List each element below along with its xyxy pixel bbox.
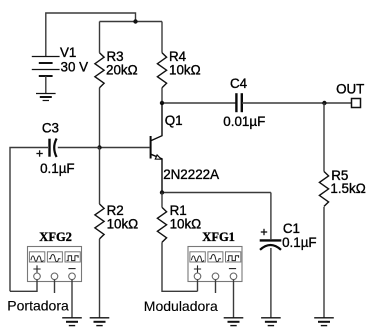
node collector [160, 101, 164, 105]
wire R4 top stub [161, 22, 163, 53]
svg-text:0.1µF: 0.1µF [40, 161, 75, 176]
wire C1 bottom to ground [270, 248, 272, 318]
svg-text:Moduladora: Moduladora [144, 298, 218, 314]
wire R4 bottom to collector node [161, 88, 163, 103]
svg-text:20kΩ: 20kΩ [106, 62, 138, 77]
svg-text:C1: C1 [283, 221, 300, 236]
svg-text:C3: C3 [42, 120, 59, 135]
svg-text:10kΩ: 10kΩ [107, 217, 139, 232]
transistor Q1 [151, 103, 162, 193]
svg-text:30 V: 30 V [61, 59, 89, 74]
wire collector rail to C4 [162, 102, 236, 104]
wire base [100, 147, 151, 149]
wire C1 top [270, 193, 272, 240]
resistor R1 [157, 207, 166, 242]
svg-text:XFG2: XFG2 [39, 230, 72, 244]
wire R1 bottom to XFG1 [162, 242, 198, 291]
terminal OUT square [352, 99, 361, 108]
svg-text:1.5kΩ: 1.5kΩ [330, 181, 365, 196]
wire R3 bottom to base node [99, 88, 101, 148]
resistor R5 [319, 172, 328, 207]
wire R5 bottom to ground [323, 207, 325, 318]
wire XFG1 plus stub [197, 280, 199, 292]
svg-text:Q1: Q1 [165, 113, 183, 128]
wire XFG2 minus to ground [71, 280, 73, 318]
svg-text:C4: C4 [230, 76, 248, 91]
node out [322, 101, 326, 105]
node emitter [160, 190, 164, 194]
svg-text:2N2222A: 2N2222A [163, 167, 219, 182]
wire XFG1 mid stub [215, 280, 217, 293]
resistor R4 [157, 53, 166, 88]
wire XFG2 mid stub [54, 280, 56, 293]
node junction top rail [133, 19, 137, 23]
wire R2 bottom to ground [99, 239, 101, 318]
ground under XFG1 [224, 318, 244, 326]
ground under R5 [314, 318, 334, 326]
wire R3 top rail [100, 21, 163, 23]
wire battery to ground [45, 76, 47, 94]
capacitor C4 [236, 93, 241, 112]
resistor R2 [95, 204, 104, 239]
wire C4 to OUT [242, 102, 352, 104]
svg-text:XFG1: XFG1 [202, 230, 235, 244]
wire C3 left [10, 148, 48, 292]
wire battery top to R3/R4 top rail [46, 13, 136, 56]
resistor R3 [95, 53, 104, 88]
node base [97, 145, 101, 149]
function generator XFG1 [188, 247, 242, 282]
wire R5 top [323, 103, 325, 172]
svg-text:0.01µF: 0.01µF [223, 114, 265, 129]
svg-text:V1: V1 [60, 45, 76, 60]
ground under C1 [261, 318, 281, 326]
ground under V1 [36, 94, 56, 101]
svg-text:Portadora: Portadora [7, 298, 69, 314]
wire R1 top [161, 193, 163, 208]
wire R3 top stub [99, 22, 101, 53]
wire C3 right [58, 147, 100, 149]
battery V1 [32, 57, 60, 77]
wire XFG1 minus to ground [233, 280, 235, 318]
plus of C1 [261, 229, 267, 235]
wire emitter rail [162, 192, 271, 194]
ground under XFG2 [62, 318, 82, 326]
svg-text:OUT: OUT [336, 82, 364, 97]
plus of C3 [36, 150, 42, 156]
ground under R2 [90, 318, 110, 326]
svg-text:10kΩ: 10kΩ [169, 62, 201, 77]
function generator XFG2 [28, 247, 82, 282]
capacitor C1 [260, 240, 282, 249]
svg-text:10kΩ: 10kΩ [170, 217, 202, 232]
wire R2 top [99, 148, 101, 205]
wire XFG2 plus down-left [10, 280, 37, 292]
svg-text:0.1µF: 0.1µF [282, 235, 317, 250]
capacitor C3 [50, 139, 57, 158]
